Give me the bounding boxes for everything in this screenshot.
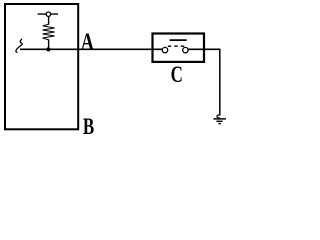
antenna terminal bar — [38, 13, 59, 15]
switch box C — [153, 34, 205, 62]
switch left terminal circle — [162, 47, 167, 52]
svg-text:A: A — [81, 28, 95, 55]
wire (right vertical drop to ground) — [219, 49, 221, 116]
antenna terminal circle — [46, 12, 50, 16]
ground bar 1 — [213, 118, 226, 120]
wire (node A horizontal run to switch) — [20, 48, 162, 50]
svg-text:B: B — [83, 115, 94, 140]
block A-B enclosure (large box) — [5, 4, 78, 129]
wire (resistor to node) — [48, 40, 50, 50]
svg-text:C: C — [171, 62, 183, 87]
resistor R (zigzag) — [43, 24, 55, 40]
switch right terminal circle — [183, 47, 188, 52]
junction node (dot under resistor) — [46, 47, 50, 51]
switch blade bar — [170, 39, 187, 41]
ground bar 3 — [218, 123, 221, 125]
ground pigtail curl — [217, 115, 220, 118]
wire (terminal to resistor) — [48, 16, 50, 24]
wire (switch to right corner) — [188, 48, 220, 50]
switch dashed contact line — [168, 45, 185, 47]
ground bar 2 — [216, 120, 222, 122]
left pigtail squiggle (loose wire end) — [16, 39, 22, 52]
